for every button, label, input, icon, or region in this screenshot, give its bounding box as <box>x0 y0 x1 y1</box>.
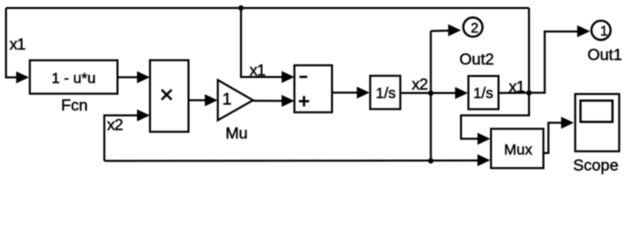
svg-text:1/s: 1/s <box>473 85 493 102</box>
wire: x2 line to product input 2 <box>104 115 138 160</box>
svg-text:1 - u*u: 1 - u*u <box>51 70 95 87</box>
wire: x1 feedback top line <box>6 7 529 9</box>
node: junction dot on bottom line <box>428 158 433 163</box>
Scope block <box>575 94 619 151</box>
wire: x2 bottom return line <box>104 160 478 162</box>
svg-text:x2: x2 <box>107 117 123 134</box>
Fcn block <box>30 60 118 93</box>
wire: x1 branch down to Mux input 1 <box>461 93 529 139</box>
wire: x1 branch down to sum minus input <box>241 8 283 77</box>
wire: left feedback drop into Fcn <box>6 8 17 77</box>
outport Out2 <box>463 18 482 37</box>
svg-text:Mu: Mu <box>225 125 247 142</box>
svg-text:Scope: Scope <box>573 158 618 175</box>
gain Mu <box>218 80 253 120</box>
svg-text:x1: x1 <box>10 36 26 53</box>
svg-text:Out2: Out2 <box>459 51 494 68</box>
wire: x1 to Out1 <box>529 32 578 93</box>
Mux block <box>491 129 543 168</box>
svg-text:Out1: Out1 <box>587 47 622 64</box>
wire: x2 branch to Out2 <box>431 30 449 32</box>
sum block <box>294 65 332 112</box>
integrator 2 (1/s) <box>468 76 498 109</box>
svg-text:x1: x1 <box>250 62 266 79</box>
wire: Fcn output to product input 1 <box>118 76 139 78</box>
wire: sum output to integrator 1 <box>332 92 357 94</box>
svg-text:1: 1 <box>222 89 231 108</box>
product block <box>150 60 189 132</box>
node: x2 junction dot <box>428 90 433 95</box>
svg-text:1/s: 1/s <box>376 85 396 102</box>
wire: product output to gain Mu <box>189 99 207 101</box>
svg-text:1: 1 <box>600 22 608 38</box>
wire: right feedback drop from top line <box>528 8 530 93</box>
outport Out1 <box>591 21 610 40</box>
node: junction dot on top line <box>238 5 243 10</box>
wire: integrator 2 output to x1 node <box>499 92 530 94</box>
wire: x2 vertical branch <box>430 31 432 161</box>
svg-text:2: 2 <box>471 19 479 35</box>
wire: integrator 1 output to integrator 2 (x2 net) <box>400 92 456 94</box>
svg-text:x2: x2 <box>412 77 428 94</box>
node: x1 junction dot <box>526 90 531 95</box>
integrator 1 (1/s) <box>370 76 400 109</box>
wire: Mux output to Scope <box>543 123 562 153</box>
svg-text:Mux: Mux <box>504 142 533 159</box>
svg-text:Fcn: Fcn <box>61 97 88 114</box>
svg-text:x1: x1 <box>509 79 525 96</box>
wire: gain output to sum plus input <box>253 100 283 102</box>
